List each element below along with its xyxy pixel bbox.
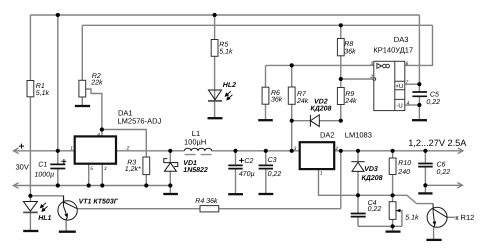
svg-text:КД208: КД208: [362, 175, 383, 182]
svg-text:100µH: 100µH: [184, 137, 206, 146]
svg-text:4: 4: [407, 100, 410, 106]
svg-text:7: 7: [406, 80, 409, 86]
svg-text:C3: C3: [268, 157, 277, 164]
svg-text:R4 36k: R4 36k: [195, 197, 218, 205]
svg-text:470µ: 470µ: [239, 171, 255, 178]
svg-text:VD3: VD3: [364, 166, 378, 173]
svg-text:HL2: HL2: [223, 82, 236, 89]
svg-text:R10: R10: [398, 160, 411, 167]
svg-text:C2: C2: [244, 158, 253, 165]
svg-text:3: 3: [370, 61, 373, 67]
svg-text:5.1k: 5.1k: [405, 214, 419, 222]
svg-text:3: 3: [104, 166, 107, 172]
svg-text:КД208: КД208: [310, 105, 331, 112]
svg-text:5,1k: 5,1k: [219, 48, 233, 56]
svg-text:1,2k*: 1,2k*: [125, 165, 141, 173]
svg-text:240: 240: [397, 169, 410, 176]
svg-text:R5: R5: [219, 42, 228, 49]
svg-text:6: 6: [406, 61, 409, 67]
svg-text:5,1k: 5,1k: [36, 89, 50, 97]
svg-text:1000µ: 1000µ: [35, 171, 55, 178]
svg-text:1N5822: 1N5822: [183, 167, 208, 174]
svg-text:1,2...27V 2.5A: 1,2...27V 2.5A: [408, 138, 467, 148]
svg-text:24k: 24k: [296, 97, 309, 105]
svg-text:HL1: HL1: [38, 215, 51, 222]
svg-text:0,22: 0,22: [368, 206, 382, 213]
svg-text:0,22: 0,22: [426, 99, 440, 106]
svg-text:DA3: DA3: [394, 35, 409, 44]
svg-text:LM2576-ADJ: LM2576-ADJ: [118, 116, 162, 125]
svg-text:C5: C5: [430, 91, 439, 98]
svg-text:C1: C1: [38, 161, 47, 168]
svg-text:+U: +U: [395, 83, 403, 90]
svg-text:КР140УД17: КР140УД17: [373, 45, 413, 54]
svg-text:36k: 36k: [344, 47, 356, 55]
svg-text:C6: C6: [437, 162, 446, 169]
svg-text:DA2: DA2: [320, 131, 335, 140]
svg-text:36k: 36k: [271, 95, 283, 103]
svg-text:R8: R8: [344, 41, 353, 48]
svg-text:30V: 30V: [16, 163, 29, 172]
svg-text:1: 1: [320, 171, 323, 177]
svg-text:2: 2: [126, 145, 130, 151]
svg-text:2: 2: [369, 74, 373, 80]
svg-text:24k: 24k: [344, 97, 357, 105]
svg-text:3: 3: [294, 146, 297, 152]
svg-text:0,22: 0,22: [268, 171, 282, 178]
svg-text:VT1 КТ503Г: VT1 КТ503Г: [79, 198, 119, 205]
svg-text:к R12: к R12: [455, 213, 474, 222]
svg-text:1: 1: [70, 145, 73, 151]
svg-text:0,22: 0,22: [437, 169, 451, 176]
svg-text:22k: 22k: [90, 79, 103, 87]
svg-text:4: 4: [97, 132, 100, 138]
svg-text:LM1083: LM1083: [345, 131, 372, 140]
svg-text:5: 5: [90, 166, 93, 172]
svg-text:2: 2: [335, 146, 339, 152]
svg-text:-U: -U: [396, 103, 402, 110]
